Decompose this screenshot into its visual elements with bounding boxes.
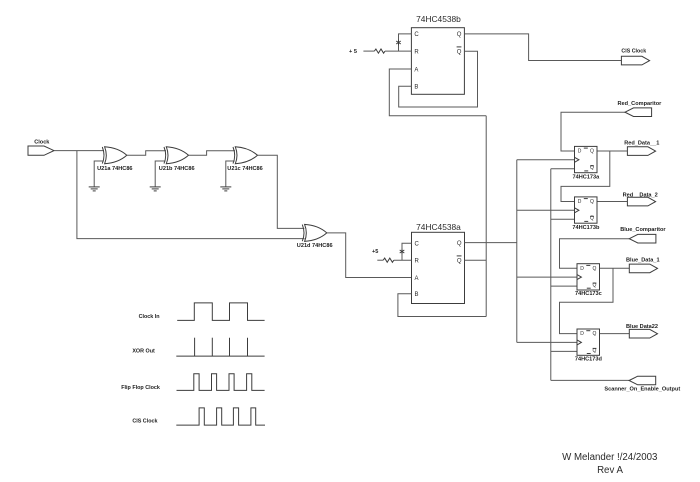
latch 74HC173c [575,264,602,298]
xor gate U21b [159,147,195,172]
wire Q 173d out [600,333,630,335]
latch 74HC173b [572,197,600,231]
wire Q 4538a to clock bus [465,242,517,244]
svg-text:74HC173b: 74HC173b [572,225,600,231]
wire vertical A4538b to Qbar4538a [485,116,487,317]
wire B loop 4538a [398,294,486,317]
xor gate U21a [97,147,132,172]
svg-text:R: R [414,49,419,55]
svg-text:74HC173d: 74HC173d [575,356,603,362]
svg-text:C: C [415,242,420,248]
svg-text:Q: Q [457,32,462,38]
waveform XOR Out [176,338,264,356]
svg-text:B: B [415,292,419,298]
wire enable to 173d [551,350,577,352]
IC 74HC4538a [412,222,465,303]
output connector CIS Clock [621,48,649,65]
wire A 4538b down [389,69,486,116]
svg-text:74HC173a: 74HC173a [573,174,601,180]
svg-text:U21b 74HC86: U21b 74HC86 [159,166,195,172]
wire clock to 173d [517,341,577,343]
wire Qbar 4538a to vertical [465,259,487,261]
svg-text:Q: Q [457,259,462,265]
xor gate U21c [227,147,262,172]
xor gate U21d [297,224,333,249]
wire clock to 173b [517,209,575,211]
waveform Flip Flop Clock [177,374,265,391]
svg-text:A: A [414,67,418,73]
wire Q 173a out [597,150,627,152]
wire Qbar 4538b to B loop [399,51,478,107]
svg-text:Rev A: Rev A [597,465,623,476]
wire U21b out to U21c [189,151,236,156]
svg-text:Q: Q [457,50,462,56]
input connector Blue_Comparitor [620,227,666,243]
svg-text:74HC4538b: 74HC4538b [416,14,461,24]
wire C loop 4538a [402,243,412,260]
svg-text:C: C [414,32,419,38]
wire resistor to R pin [394,259,412,261]
wire Red_Comparitor to D 173a [561,112,625,151]
svg-text:+ 5: + 5 [349,49,357,55]
svg-text:W Melander !/24/2003: W Melander !/24/2003 [562,452,657,463]
waveform CIS Clock [176,408,265,425]
svg-text:Scanner_On_Enable_Output: Scanner_On_Enable_Output [604,386,680,392]
svg-text:+5: +5 [372,249,378,255]
wire enable to 173a [551,168,575,170]
wire U21d out to A of 74HC4538a [327,233,412,278]
svg-text:U21a 74HC86: U21a 74HC86 [97,166,132,172]
wire enable to 173c [551,285,577,287]
svg-text:R: R [415,259,420,265]
wire resistor to R pin [385,50,411,52]
svg-text:74HC4538a: 74HC4538a [416,222,461,232]
wire U21c out to U21d [258,155,305,228]
IC 74HC4538b [411,14,464,95]
wire clock to U21a [54,150,104,152]
output connector Blue_Data_1 [626,258,660,273]
output connector Red__Data_2 [623,193,658,206]
wire Q 173c branch to D 173d [560,268,614,333]
svg-text:Clock In: Clock In [139,314,160,320]
wire U21a out to U21b [127,151,166,156]
svg-text:U21d 74HC86: U21d 74HC86 [297,243,333,249]
latch 74HC173a [573,146,601,180]
input connector Clock [28,139,54,155]
wire clock branch down [77,151,305,239]
svg-text:Red_Comparitor: Red_Comparitor [617,101,662,107]
resistor [374,49,385,53]
ground [150,161,166,191]
svg-text:Q: Q [457,241,462,247]
enable bus vertical [550,169,552,381]
wire C loop 4538b [399,34,412,51]
svg-text:Clock: Clock [34,139,50,145]
ground [89,161,104,191]
svg-text:Red__Data_2: Red__Data_2 [623,193,658,199]
output connector Blue Data22 [626,324,658,338]
input connector Red_Comparitor [617,101,662,117]
junction [400,249,405,254]
junction [396,40,401,45]
wire Q 173c out [600,267,630,269]
ground [220,161,234,191]
wire clock to 173a [517,159,575,161]
output connector Red_Data__1 [624,140,659,155]
wire clock to 173c [517,276,577,278]
svg-text:Blue Data22: Blue Data22 [626,324,658,330]
resistor [383,258,394,262]
latch 74HC173d [575,329,603,362]
output connector Scanner_On_Enable_Output [604,376,680,392]
svg-text:CIS Clock: CIS Clock [621,48,646,54]
svg-text:Flip Flop Clock: Flip Flop Clock [121,385,160,391]
svg-text:XOR Out: XOR Out [132,349,155,355]
wire enable to 173b [551,218,575,220]
svg-text:Blue_Data_1: Blue_Data_1 [626,258,660,264]
wire to resistor [363,50,374,52]
wire enable to Scanner connector [551,379,629,381]
svg-text:U21c 74HC86: U21c 74HC86 [227,166,262,172]
svg-text:CIS Clock: CIS Clock [132,419,157,425]
wire Q 4538b to CIS Clock [464,34,621,61]
clock bus vertical [516,160,518,343]
svg-text:A: A [415,276,419,282]
wire Blue_Comparitor to D 173c [560,239,630,269]
svg-text:Red_Data__1: Red_Data__1 [624,140,659,146]
svg-text:B: B [414,85,418,91]
wire Q 173b out [597,201,627,203]
wire Q 173a branch to D 173b [561,151,610,202]
wire to resistor [377,259,383,261]
svg-text:Blue_Comparitor: Blue_Comparitor [620,227,666,233]
waveform Clock In [177,303,264,321]
svg-text:74HC173c: 74HC173c [575,291,602,297]
